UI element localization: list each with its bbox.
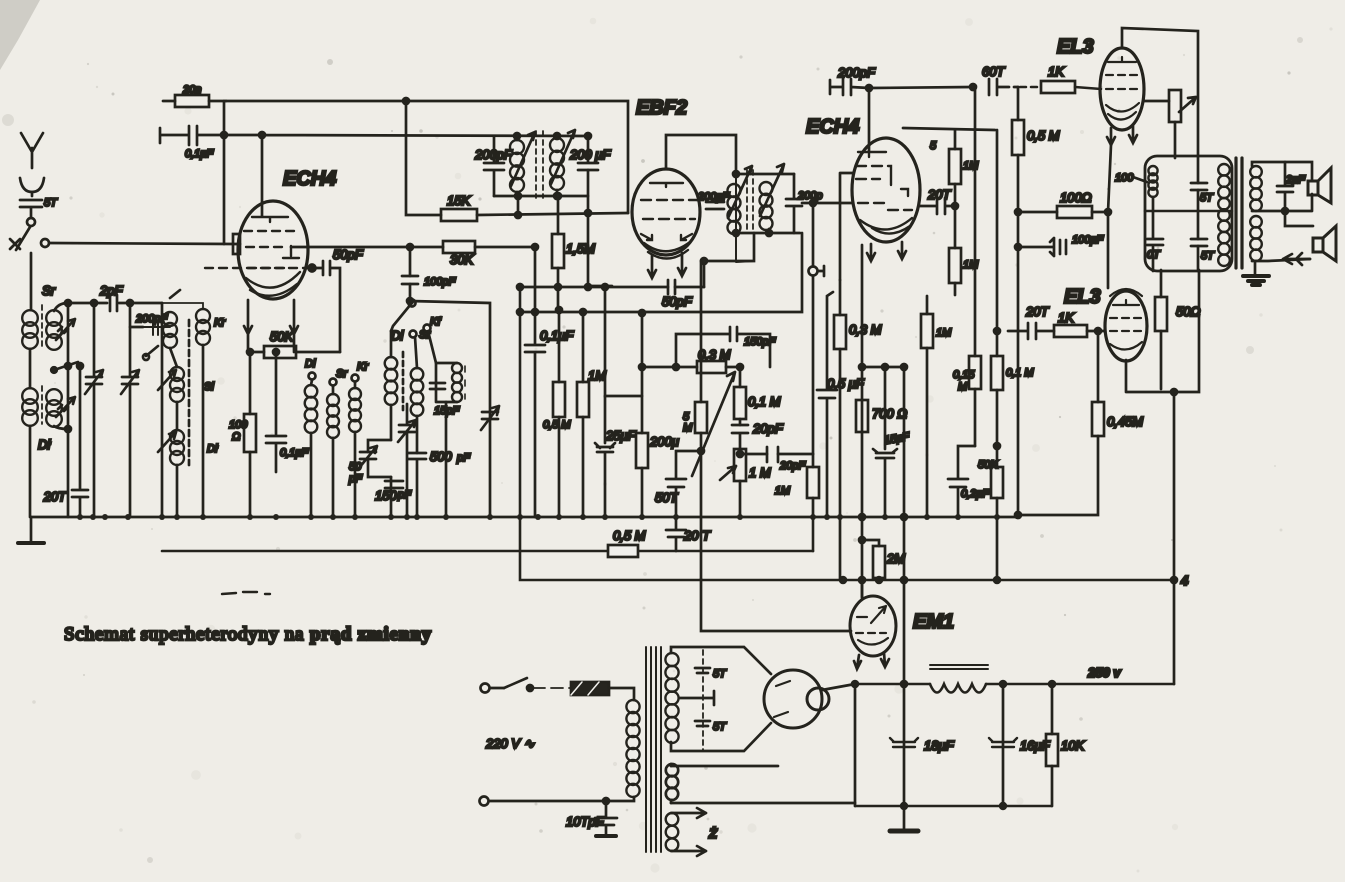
dashed injection grid row [205, 265, 316, 272]
resistor 200u [636, 310, 679, 517]
trimmer arrow T1 lower [56, 397, 75, 417]
svg-text:700 Ω: 700 Ω [872, 406, 907, 421]
svg-text:150pF: 150pF [744, 336, 776, 348]
svg-text:2M: 2M [886, 551, 905, 566]
svg-text:20T: 20T [1025, 304, 1049, 319]
svg-text:5T: 5T [713, 668, 727, 680]
tube EBF2 internals [641, 183, 696, 259]
heater tap marks 5T lower [695, 721, 727, 733]
wire AF takeoff y454 [737, 447, 813, 472]
oscillator coil Dr large [385, 328, 405, 517]
wire AF line y312 [520, 233, 802, 312]
tube ECH4 no1 side contact [233, 234, 240, 254]
tube EM1 [850, 596, 896, 656]
svg-text:200 μF: 200 μF [569, 147, 611, 162]
fuse [571, 682, 609, 695]
capacitor 2uF [1277, 162, 1306, 214]
variable capacitor VC1 [85, 303, 103, 517]
wire fuse to transformer [609, 688, 634, 700]
wire antenna down [30, 253, 33, 310]
IF transformer T3 left lead [736, 174, 754, 262]
wire 50pF line [517, 280, 704, 309]
trimmer arrows RF coils [158, 370, 176, 452]
resistor 0.3M [642, 347, 740, 373]
heater arrows Z [671, 808, 718, 856]
svg-text:1M: 1M [775, 485, 791, 497]
capacitor 0.1uF agc [525, 244, 574, 517]
svg-text:Ω: Ω [232, 431, 240, 443]
IF T3 tuning arrows [728, 164, 784, 218]
wire sg top [903, 128, 995, 152]
wire B line x975 [953, 87, 981, 446]
resistor 1M osc a [949, 130, 979, 206]
top bus wire left [226, 100, 406, 103]
svg-text:EL3: EL3 [1057, 36, 1094, 58]
top bus to corner [403, 98, 628, 213]
svg-text:5T: 5T [1200, 192, 1214, 204]
power transformer core [646, 647, 661, 852]
resistor 20n top [163, 84, 226, 107]
bus2 line [162, 517, 813, 551]
wire EM1 grid line [701, 579, 851, 631]
svg-text:1,5M: 1,5M [566, 241, 595, 256]
transformer secondary lower [1250, 216, 1262, 261]
tap mark 0T left [1147, 239, 1163, 261]
IF T2 box bottom [494, 193, 588, 218]
capacitor 20T anode [920, 187, 958, 214]
svg-text:50K: 50K [978, 459, 998, 471]
wire top line to 60T [866, 84, 976, 91]
tube EBF2 pins [648, 253, 686, 278]
capacitor 0.1uF grid [160, 126, 224, 160]
IF T2 secondary coil [550, 133, 564, 196]
transformer primary winding [1218, 164, 1230, 266]
svg-text:0,15: 0,15 [953, 369, 975, 381]
transformer feed line inside [1197, 156, 1200, 271]
T1 core dashed [41, 305, 43, 424]
hum coil 100 [1115, 166, 1158, 271]
filter choke [930, 665, 988, 693]
svg-text:50pF: 50pF [333, 247, 364, 262]
svg-text:20T: 20T [927, 187, 951, 202]
HV center tap dashed [702, 650, 704, 750]
oscillator coil Sr2 contact [410, 329, 432, 368]
RF coil stack Si [163, 312, 214, 517]
variable capacitor VC2 [121, 300, 139, 517]
svg-text:2μF: 2μF [1285, 174, 1306, 186]
svg-text:0,1 M: 0,1 M [748, 394, 781, 409]
svg-text:10K: 10K [1061, 738, 1085, 753]
capacitor 2pF [99, 283, 123, 311]
antenna switch [10, 218, 49, 250]
capacitor 20pF det [732, 421, 784, 449]
svg-text:Kr: Kr [214, 317, 226, 329]
wire junction y367 [862, 364, 907, 370]
svg-text:60T: 60T [982, 64, 1005, 79]
svg-text:100: 100 [1115, 172, 1134, 184]
tube ECH4 no1 internals [244, 217, 300, 296]
tube EL3 no2 internals [1110, 300, 1142, 350]
tube EL3 no2 [1105, 291, 1147, 361]
antenna [20, 133, 44, 196]
filament winding 2 [666, 764, 678, 803]
potentiometer arrow 0.3M [692, 364, 743, 476]
wire el3 pin drop [1108, 145, 1111, 288]
capacitor 200uF T3 left [697, 191, 730, 209]
IF transformer T2 left cap 200pF [474, 136, 513, 196]
resistor 5M [683, 261, 707, 579]
HV bottom wire to rectifier [671, 723, 771, 751]
capacitor 50T [655, 451, 701, 517]
speaker no1 wires [1252, 162, 1312, 211]
svg-text:1M: 1M [963, 259, 979, 271]
capacitor 50pF osc grid [312, 247, 364, 352]
tube EM1 internals [856, 606, 888, 645]
Kf contact [424, 316, 442, 363]
tap mark 5T b [1191, 239, 1215, 262]
wire to primary bottom [603, 797, 634, 804]
resistor 0.5M on bus2 [608, 528, 646, 557]
svg-text:M: M [958, 381, 968, 393]
variable capacitor VC3 [398, 404, 416, 517]
registration dashes [222, 592, 270, 594]
resistor 1K el3 grid [1020, 64, 1101, 93]
wire osc grid down [840, 173, 853, 280]
heater symbol mid [680, 691, 714, 705]
tube EL3 no1 pins [1107, 126, 1137, 145]
resistor 2M [859, 537, 905, 580]
transformer T1 primary coil lower [22, 388, 51, 517]
tube EM1 pins [854, 653, 889, 669]
HV top wire to rectifier [671, 647, 771, 674]
B rail 250V [852, 681, 1174, 687]
svg-text:Schemat superheterodyny na prą: Schemat superheterodyny na prąd zmienny [64, 624, 432, 645]
ground speaker [1243, 263, 1269, 285]
svg-text:4: 4 [1180, 573, 1189, 588]
svg-text:50Ω: 50Ω [1176, 304, 1200, 319]
resistor 0.1M det [734, 367, 781, 425]
svg-text:Kf: Kf [430, 316, 441, 328]
tube EL3 no1 plate wire [1122, 28, 1198, 156]
svg-text:100μF: 100μF [1072, 234, 1104, 246]
svg-text:15K: 15K [447, 193, 471, 208]
capacitor 20T el3 no2 [1008, 304, 1054, 339]
IF T2 right cap 200pF [569, 133, 611, 287]
transformer core [1236, 158, 1242, 268]
resistor 1M af grid [775, 454, 819, 517]
resistor 100ohm output [1018, 190, 1111, 218]
speaker no2 [1313, 226, 1336, 261]
IF T2 tuning arrows [511, 130, 575, 186]
speaker no2 wires [1252, 211, 1313, 261]
resistor 1M osc b [949, 206, 979, 295]
svg-text:150: 150 [375, 488, 397, 503]
capacitor 200pF T3 right [786, 174, 822, 233]
capacitor 200pF RF [130, 313, 170, 335]
ground power [890, 806, 918, 831]
resistor 700ohm [856, 400, 907, 432]
svg-text:20pF: 20pF [779, 460, 806, 472]
rectifier anodes [774, 681, 790, 717]
power transformer primary coil [626, 700, 639, 797]
tap mark 5T a [1191, 183, 1214, 204]
svg-text:20T: 20T [43, 489, 67, 504]
capacitor 20T to bus [43, 366, 88, 517]
oscillator coil Kr contact [352, 361, 370, 388]
svg-text:500: 500 [430, 449, 452, 464]
capacitor 15uF cathode [873, 367, 911, 517]
svg-text:Sr: Sr [336, 368, 348, 380]
capacitor 10TpF [566, 801, 617, 836]
capacitor 20T below bus [666, 517, 711, 551]
tube EBF2 [632, 169, 700, 255]
tube ECH4 no1 [238, 201, 308, 299]
resistor 0.5M agc [543, 307, 571, 517]
svg-text:0,2μF: 0,2μF [961, 488, 990, 500]
oscillator coil Di [305, 385, 318, 517]
svg-text:1K: 1K [1058, 310, 1075, 325]
svg-text:Dł: Dł [38, 437, 51, 452]
resistor 30K [291, 241, 535, 267]
resistor 0.5M el3 grid leak [1012, 87, 1060, 515]
capacitor 25uF [595, 396, 637, 517]
tube ECH4 no2 pins [867, 242, 906, 261]
svg-text:100pF: 100pF [424, 276, 456, 288]
svg-text:250 v: 250 v [1087, 665, 1121, 680]
wire 100pF drop [402, 244, 456, 301]
tube ECH4 no2 internals [856, 152, 912, 234]
wire plate line to IF1 [224, 132, 588, 216]
svg-text:100Ω: 100Ω [1060, 190, 1092, 205]
capacitor 16uF [989, 684, 1051, 806]
svg-text:1K: 1K [1048, 64, 1065, 79]
mains switch [504, 678, 571, 691]
resistor 1K el3 no2 [1054, 310, 1105, 337]
rectifier tube [764, 670, 829, 728]
svg-text:5T: 5T [713, 721, 727, 733]
svg-text:0T: 0T [1147, 249, 1161, 261]
capacitor 0.2uF [948, 446, 990, 517]
IF T3 secondary coil [760, 182, 773, 233]
svg-text:Di: Di [391, 328, 404, 343]
svg-text:5T: 5T [1201, 250, 1215, 262]
return line bottom [855, 803, 1052, 809]
svg-text:EBF2: EBF2 [636, 97, 687, 119]
HV secondary coil [665, 653, 678, 743]
resistor 50K cathode [248, 329, 340, 358]
tube ECH4 no2 top cap wire [868, 88, 871, 152]
capacitor 200pF coupling top [830, 65, 876, 95]
T1 secondary coil upper [46, 303, 68, 350]
wire grid return EBF2 [585, 284, 612, 290]
bus junction dots [77, 514, 1000, 520]
capacitor 0.5uF cathode2 [817, 292, 865, 517]
trimmer arrow T1 upper [56, 319, 75, 340]
svg-text:0,1μF: 0,1μF [280, 447, 309, 459]
svg-text:20pF: 20pF [752, 421, 784, 436]
wire cathode x862 [859, 245, 865, 598]
resistor 15K [406, 101, 628, 221]
resistor 0.3M osc grid leak [834, 280, 882, 580]
svg-text:1M: 1M [963, 160, 979, 172]
tone resistor with arrow [1144, 90, 1196, 158]
resistor 0.45M [1015, 331, 1143, 518]
capacitor 150pF osc [375, 481, 412, 503]
band switch T1 [51, 362, 83, 373]
svg-text:0,45M: 0,45M [1107, 414, 1143, 429]
IF T3 primary coil [728, 184, 741, 234]
tube EL3 no1 [1100, 48, 1144, 130]
wire switch to grid contact [49, 243, 233, 244]
wire detector line [701, 233, 754, 287]
oscillator coil Di contact [305, 358, 316, 385]
wire 2pF line [68, 300, 162, 306]
resistor 100ohm [229, 349, 256, 517]
svg-text:50K: 50K [270, 329, 294, 344]
speaker no1 [1308, 168, 1331, 203]
svg-text:0,1μF: 0,1μF [540, 328, 574, 343]
IF T2 primary coil [510, 133, 524, 196]
IF T2 core dashed [536, 131, 543, 198]
variable capacitor VC4 [407, 298, 499, 517]
svg-text:pF: pF [348, 473, 363, 485]
svg-text:pF: pF [397, 489, 412, 501]
capacitor 100uF [1018, 234, 1104, 256]
heater line upper [671, 765, 778, 768]
tube EBF2 top cap wire [666, 135, 736, 174]
wire secondary hot [65, 300, 71, 517]
svg-text:ECH4: ECH4 [283, 168, 336, 190]
svg-text:0,3 M: 0,3 M [849, 322, 882, 337]
svg-text:Dł: Dł [207, 443, 218, 455]
svg-text:Ż: Ż [708, 826, 718, 841]
wire drop to bus2 [161, 303, 164, 517]
IF T3 core dashed [747, 170, 753, 232]
svg-text:1M: 1M [936, 327, 952, 339]
svg-text:1M: 1M [588, 368, 606, 383]
wire sec to cathode [1126, 270, 1199, 392]
tube EL3 no2 top arcs [1110, 289, 1142, 296]
svg-text:0,5 M: 0,5 M [543, 419, 571, 431]
svg-text:0,1 M: 0,1 M [1006, 367, 1034, 379]
tube ECH4 no2 [852, 138, 920, 242]
heater tap marks 5T upper [695, 668, 727, 680]
svg-text:0,5 M: 0,5 M [613, 528, 646, 543]
output transformer box [1145, 156, 1232, 271]
capacitor 5T antenna [20, 197, 58, 218]
resistor 1.5M [552, 193, 595, 310]
mains terminal upper [481, 684, 505, 693]
wire line x997 [991, 130, 1034, 449]
RF core dashed [188, 320, 191, 465]
oscillator coil Sr2 [411, 368, 424, 453]
band switch blade osc [391, 300, 416, 332]
wire ECH4 no2 grid [802, 200, 853, 206]
oscillator core dashed [402, 352, 405, 410]
capacitor 60T top [982, 64, 1018, 95]
filament winding 3 [666, 813, 679, 851]
svg-text:50pF: 50pF [662, 294, 693, 309]
tube ECH4 no1 pins [244, 300, 298, 352]
svg-text:10TpF: 10TpF [566, 814, 605, 829]
svg-text:5: 5 [930, 140, 937, 152]
resistor 1M agc [577, 309, 606, 517]
wire screen feed x904 [901, 367, 907, 687]
heater line lower [671, 802, 855, 805]
svg-text:M: M [683, 422, 693, 434]
svg-text:0,1μF: 0,1μF [185, 148, 214, 160]
capacitor 500pF [408, 449, 471, 517]
resistor 10K bleeder [1046, 684, 1085, 806]
svg-text:200μ: 200μ [649, 434, 679, 449]
ground bus main [31, 516, 1018, 519]
svg-text:Sr: Sr [42, 283, 56, 298]
svg-text:EL3: EL3 [1064, 286, 1101, 308]
oscillator coil Sr [327, 394, 339, 517]
resistor 1M x927 [921, 296, 952, 517]
RF coil Kr [162, 303, 226, 517]
wire EM1 target feed [861, 580, 864, 597]
svg-text:18μF: 18μF [924, 738, 955, 753]
capacitor 0.1uF cathode [266, 349, 309, 472]
svg-text:5T: 5T [44, 197, 58, 209]
voice coil arrows [1283, 253, 1310, 265]
svg-text:1 M: 1 M [749, 465, 771, 480]
ground symbol left [18, 517, 44, 543]
wire top cap junction [221, 101, 227, 244]
mains terminal lower [480, 797, 607, 806]
switch blades RF [143, 290, 180, 360]
potentiometer 1M volume [720, 449, 771, 517]
svg-text:220 V ∿: 220 V ∿ [485, 736, 535, 751]
rectifier cathode wire [822, 684, 855, 690]
svg-text:EM1: EM1 [913, 611, 954, 633]
resistor 50K af [978, 446, 1003, 580]
capacitor 18uF [890, 684, 955, 806]
wire 25uF drop [605, 287, 642, 396]
B bus line3 [520, 287, 1174, 583]
svg-text:ECH4: ECH4 [806, 116, 859, 138]
svg-text:25μF: 25μF [605, 428, 637, 443]
tube EL3 no1 internals [1106, 57, 1139, 120]
terminal pickup [809, 203, 825, 454]
oscillator padder trimmer 50pF [348, 440, 391, 485]
Kf coil with 15pF [430, 363, 462, 517]
svg-text:Di: Di [305, 358, 316, 370]
dashed marks around Kf [464, 366, 466, 399]
transformer internal mid wire [1145, 210, 1232, 213]
resistor 50ohm [1155, 270, 1200, 389]
svg-text:0,5 M: 0,5 M [1027, 128, 1060, 143]
heater return drop [854, 684, 857, 806]
oscillator coil Sr contact [330, 368, 349, 394]
transformer T1 primary coil upper [22, 283, 55, 388]
svg-text:100: 100 [229, 419, 248, 431]
T1 secondary coil lower [46, 389, 68, 429]
svg-text:Si: Si [204, 381, 214, 393]
IF T3 box [733, 171, 800, 236]
transformer secondary upper [1250, 166, 1262, 211]
oscillator coil Kr [349, 388, 361, 517]
svg-text:pF: pF [456, 452, 471, 464]
wire transformer B feed [1171, 389, 1177, 684]
capacitor 150pF det [673, 327, 776, 370]
svg-text:Kr: Kr [357, 361, 369, 373]
